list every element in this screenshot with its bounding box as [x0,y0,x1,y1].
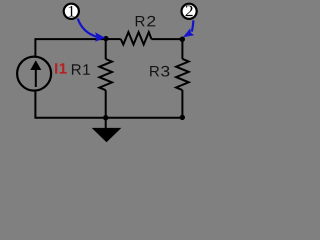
resistor R3 [176,59,189,90]
arrow to node 1 [78,19,105,42]
node 2 label circle [182,4,197,19]
node 1 label circle [64,4,79,19]
resistor R2 [121,32,152,44]
wire R2 to node2 [152,38,183,40]
label R2 [136,16,156,27]
wire left branch [35,39,105,56]
wire ground stub [105,118,107,129]
wire node1 to R2 [106,38,121,40]
current source I1 circle [17,57,51,91]
node 2 label digit [186,5,193,16]
wire node2 to R3 [181,39,183,59]
node 1 junction dot [103,36,108,41]
wire node1 to R1 [105,39,107,59]
resistor R1 [99,59,112,90]
ground junction dot [103,115,108,120]
label I1 [55,63,67,73]
ground [92,128,122,142]
label R1 [72,64,90,74]
label R3 [150,66,169,77]
wire bottom [35,92,182,118]
wire R1 to ground node [105,90,107,118]
bottom-right junction dot [180,115,185,120]
wire R3 to bottom node [181,90,183,118]
node 2 junction dot [180,37,185,42]
current source I1 arrow [30,60,41,87]
arrow to node 2 [183,20,194,37]
node 1 label digit [69,6,75,17]
